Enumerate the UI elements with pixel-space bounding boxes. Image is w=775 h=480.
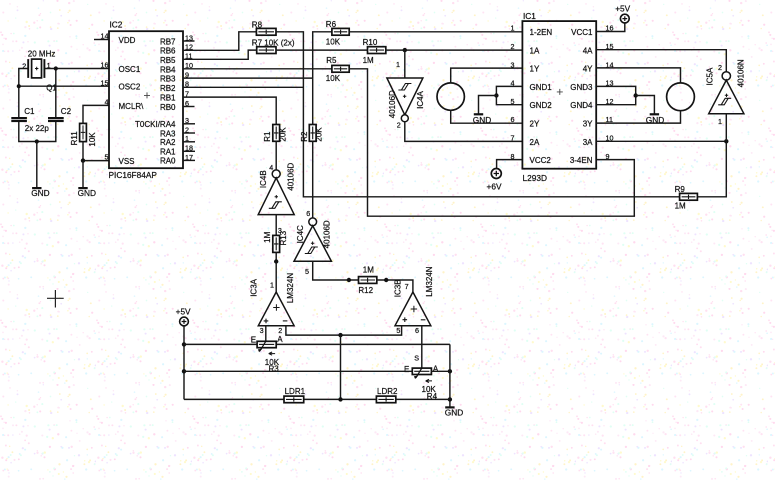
svg-text:3-4EN: 3-4EN [570, 156, 593, 165]
wire motor M2 bottom to 3Y [596, 111, 680, 123]
wire node C to LDR junction [340, 335, 342, 399]
wire rail to ground [36, 142, 38, 188]
junction LDR2/ground riser [448, 397, 452, 401]
svg-text:11: 11 [185, 52, 192, 61]
svg-text:GND: GND [473, 115, 491, 125]
wire RB3 riser up to R6 [313, 32, 332, 78]
wire OSC1 net: crystal pin1 to IC2 OSC1 [44, 68, 109, 70]
ground GND under L293D right [646, 114, 664, 125]
svg-text:R12: R12 [358, 286, 373, 295]
power +5V symbol top right [620, 14, 629, 23]
svg-text:6: 6 [415, 326, 419, 335]
svg-text:L293D: L293D [523, 173, 547, 183]
wire R2 to IC4C output bubble [312, 141, 314, 218]
wire OSC2 net: node to IC2 OSC2 [19, 85, 109, 87]
wire VSS net to IC2 pin 5 [83, 160, 109, 162]
wire RB4 to R5 [183, 68, 332, 70]
svg-text:7: 7 [511, 134, 515, 143]
svg-text:2: 2 [22, 61, 26, 70]
wire RB2 to R8 riser [183, 86, 303, 88]
photoresistor LDR1 [284, 396, 304, 403]
inverter IC4A [387, 78, 423, 122]
junction rail/R3 row [182, 342, 186, 346]
wire IC5A input lead [725, 114, 727, 142]
wire R4 row A side [431, 370, 450, 372]
ground GND under R11 [78, 188, 96, 198]
motor M2 right [667, 83, 695, 111]
IC IC1 L293D body [522, 21, 596, 169]
resistor R8 [256, 28, 276, 35]
wire IC4C input to R12 row [313, 261, 359, 280]
svg-text:14: 14 [101, 32, 109, 41]
wire R7 to R10 [276, 49, 368, 51]
svg-text:1A: 1A [530, 46, 540, 55]
svg-text:12: 12 [185, 43, 193, 52]
svg-text:5: 5 [305, 267, 309, 276]
wire GND3 GND4 bracket [596, 86, 636, 104]
junction R12 left node [347, 278, 351, 282]
svg-text:IC1: IC1 [523, 11, 536, 21]
svg-text:5: 5 [105, 153, 109, 162]
svg-text:10: 10 [185, 61, 193, 70]
resistor R6 [332, 28, 349, 35]
inverter IC5A [709, 72, 744, 114]
wire GND1 GND2 bracket [496, 86, 522, 104]
wire L293D 1Y to motor M1 top [451, 68, 523, 83]
ground GND bottom right [445, 407, 463, 417]
resistor R5 [332, 65, 349, 72]
junction VSS/R11/ground [81, 158, 85, 162]
wire LDR row [184, 398, 450, 400]
wire C2 riser from OSC1 net [55, 69, 57, 118]
junction node OSC2/C1 [17, 84, 21, 88]
svg-text:RB1: RB1 [160, 93, 176, 102]
svg-text:9: 9 [185, 71, 189, 80]
wire VSS node to ground [82, 161, 84, 188]
svg-text:18: 18 [185, 144, 193, 153]
svg-text:GND1: GND1 [530, 83, 553, 92]
junction R4A/ground riser [448, 369, 452, 373]
svg-text:15: 15 [101, 78, 109, 87]
wire bracket to ground [479, 96, 497, 115]
wire R5 right lead riser and run to L293D pin 9 [349, 69, 634, 216]
svg-text:VCC1: VCC1 [571, 28, 593, 37]
svg-text:R1: R1 [263, 131, 272, 142]
svg-text:20 MHz: 20 MHz [28, 49, 56, 58]
svg-text:RA2: RA2 [160, 138, 176, 147]
svg-text:7: 7 [185, 90, 189, 99]
svg-text:3: 3 [260, 326, 264, 335]
svg-text:5: 5 [511, 97, 515, 106]
wire node B to IC3A output [275, 262, 277, 293]
svg-text:Q1: Q1 [46, 83, 57, 92]
svg-text:2A: 2A [530, 138, 540, 147]
IC IC2 PIC16F84AP body [109, 31, 183, 168]
junction LDR mid node [338, 397, 342, 401]
svg-text:20K: 20K [279, 127, 288, 142]
svg-text:R5: R5 [326, 56, 337, 65]
svg-text:2Y: 2Y [530, 120, 540, 129]
pin 14 VDD stub [94, 39, 109, 41]
op-amp IC3B [395, 292, 431, 326]
svg-text:R11: R11 [70, 131, 79, 146]
svg-text:7: 7 [405, 282, 409, 291]
wire IC5A node down to R9 [697, 141, 726, 197]
wire R11 bottom to VSS node [82, 142, 84, 161]
svg-text:10K: 10K [88, 132, 97, 147]
svg-text:8: 8 [511, 152, 515, 161]
wire 4A to IC5A output [596, 50, 726, 72]
wire IC3A pin2 to IC3B pin5 [286, 326, 402, 335]
svg-text:S: S [414, 354, 419, 363]
svg-text:LM324N: LM324N [425, 266, 434, 296]
svg-text:3: 3 [511, 60, 515, 69]
op-amp IC3A [258, 292, 294, 326]
origin cross of IC1 [557, 89, 563, 95]
svg-text:GND3: GND3 [570, 83, 593, 92]
resistor R11 [80, 123, 87, 141]
svg-text:C2: C2 [61, 107, 72, 116]
svg-text:4: 4 [105, 98, 109, 107]
svg-text:RB6: RB6 [160, 47, 176, 56]
svg-text:R3: R3 [269, 364, 280, 373]
wire R8 right lead, riser and run to R9 (net to IC5A input) [276, 32, 680, 197]
wire RB5 to R7 [183, 50, 257, 59]
svg-text:1: 1 [185, 134, 189, 143]
wire RB3 node down to R2 [312, 78, 314, 124]
pin RA4 stub (3) [183, 123, 195, 125]
svg-text:IC4A: IC4A [416, 90, 425, 108]
svg-text:1M: 1M [363, 56, 374, 65]
svg-text:2: 2 [397, 121, 401, 130]
junction R12 right node [384, 278, 388, 282]
svg-text:RA1: RA1 [160, 148, 176, 157]
svg-text:OSC1: OSC1 [119, 65, 141, 74]
svg-text:VCC2: VCC2 [530, 156, 552, 165]
inverter IC4C [294, 218, 331, 261]
svg-text:2x 22p: 2x 22p [25, 124, 50, 133]
svg-text:RB3: RB3 [160, 75, 176, 84]
svg-text:10K: 10K [326, 37, 341, 46]
svg-text:R9: R9 [675, 185, 686, 194]
wire bracket to ground right [636, 96, 655, 115]
svg-text:3A: 3A [583, 138, 593, 147]
wire IC3A pin3 to R3 wiper [265, 326, 267, 342]
svg-text:6: 6 [306, 209, 310, 218]
junction node A (R10/IC4A/1A) [403, 48, 407, 52]
svg-text:2: 2 [718, 63, 722, 72]
pin RA0 stub (17) [183, 159, 195, 161]
wire MCLR net: corner to IC2 pin 4 [83, 105, 109, 123]
wire motor M1 bottom to L293D 2Y [451, 110, 523, 123]
crystal Q1 [28, 59, 44, 78]
svg-text:RA0: RA0 [160, 157, 176, 166]
svg-text:1: 1 [511, 24, 515, 33]
svg-text:6: 6 [185, 99, 189, 108]
svg-text:LDR2: LDR2 [377, 387, 398, 396]
svg-text:IC4C: IC4C [296, 225, 305, 243]
svg-text:E: E [404, 365, 409, 374]
svg-text:20K: 20K [315, 127, 324, 142]
ground GND under L293D left [473, 114, 491, 125]
svg-text:RA3: RA3 [160, 129, 176, 138]
svg-text:1M: 1M [263, 231, 272, 242]
origin cross of IC2 [144, 92, 150, 98]
svg-text:LM324N: LM324N [286, 273, 295, 303]
junction GND1/GND2 [494, 93, 498, 97]
svg-text:GND: GND [445, 408, 463, 418]
svg-text:+5V: +5V [615, 3, 630, 13]
wire node to C1 top [18, 86, 20, 117]
ground GND under C1 C2 [31, 188, 49, 198]
svg-text:A: A [277, 335, 283, 344]
svg-text:+6V: +6V [487, 182, 502, 192]
junction IC5A input node [724, 139, 728, 143]
svg-text:RB7: RB7 [160, 37, 176, 46]
svg-text:OSC2: OSC2 [119, 83, 141, 92]
junction GND3/GND4 [634, 93, 638, 97]
svg-text:IC2: IC2 [110, 20, 123, 30]
wire IC4B input to R13 [275, 215, 277, 236]
resistor R12 [359, 277, 377, 284]
resistor R10 [368, 47, 386, 54]
svg-text:GND4: GND4 [570, 101, 593, 110]
resistor R9 [680, 193, 698, 200]
power +6V symbol [491, 169, 501, 179]
wire R6 to L293D pin 1 [349, 31, 522, 33]
wire node A to IC4A input [404, 50, 406, 78]
resistor R7 [257, 47, 276, 54]
resistor R2 [309, 125, 316, 142]
pin RB0 stub (6) [183, 106, 195, 108]
svg-text:R2: R2 [300, 131, 309, 142]
svg-text:MCLR\: MCLR\ [119, 102, 145, 111]
pin RA2 stub (1) [183, 141, 195, 143]
svg-text:RB5: RB5 [160, 56, 176, 65]
pin RB7 stub (13) [183, 40, 195, 42]
svg-text:9: 9 [606, 152, 610, 161]
svg-text:3: 3 [185, 116, 189, 125]
motor M1 left [437, 83, 464, 110]
svg-text:40106D: 40106D [323, 220, 332, 248]
inverter IC4B [258, 170, 294, 215]
junction node OSC1/C2 [54, 66, 58, 70]
svg-text:13: 13 [185, 33, 193, 42]
wire ground riser right side [449, 344, 451, 407]
svg-text:1: 1 [718, 117, 722, 126]
svg-text:2: 2 [511, 42, 515, 51]
svg-text:IC4B: IC4B [259, 170, 268, 188]
photoresistor LDR2 [376, 396, 395, 403]
wire R1 to IC4B output bubble [275, 141, 277, 170]
resistor R13 [273, 235, 280, 252]
resistor R1 [273, 125, 280, 142]
wire R10 to node A and L293D pin 2 [386, 49, 523, 51]
svg-text:IC5A: IC5A [705, 67, 714, 85]
svg-text:RB0: RB0 [160, 103, 176, 112]
wire VCC1 to +5V [596, 23, 625, 31]
power +5V rail symbol [180, 317, 189, 326]
wire IC3B pin6 to R4 wiper [421, 326, 423, 368]
svg-text:C1: C1 [24, 107, 35, 116]
svg-text:1-2EN: 1-2EN [530, 28, 553, 37]
svg-text:GND: GND [646, 115, 664, 125]
svg-text:1: 1 [396, 60, 400, 69]
svg-text:1Y: 1Y [530, 65, 540, 74]
svg-text:E: E [251, 335, 256, 344]
junction rail to ground [35, 139, 39, 143]
wire RB3 to R6/R2 node [183, 77, 313, 79]
svg-text:4: 4 [511, 79, 515, 88]
svg-text:2: 2 [185, 125, 189, 134]
svg-text:RB4: RB4 [160, 65, 176, 74]
svg-text:40106D: 40106D [287, 162, 296, 190]
svg-text:4Y: 4Y [583, 65, 593, 74]
pin RA1 stub (18) [183, 150, 195, 152]
wire RB6 to R8 [183, 32, 256, 51]
svg-text:2: 2 [278, 326, 282, 335]
svg-text:A: A [433, 365, 439, 374]
svg-text:17: 17 [185, 153, 193, 162]
capacitor C1 [11, 118, 27, 121]
svg-text:4: 4 [269, 163, 273, 172]
capacitor C2 [48, 118, 64, 121]
wire crystal pin2 lead and riser to OSC2 node [19, 69, 28, 87]
wire R4 row E side [184, 370, 412, 372]
svg-text:5: 5 [396, 326, 400, 335]
wire R12 to IC3B output [377, 280, 413, 292]
svg-text:GND: GND [78, 188, 96, 198]
svg-text:GND: GND [31, 188, 49, 198]
svg-text:T0CKI/RA4: T0CKI/RA4 [135, 120, 176, 129]
svg-text:10K: 10K [326, 74, 341, 83]
svg-text:GND2: GND2 [530, 101, 553, 110]
svg-text:6: 6 [511, 115, 515, 124]
trimmer R4 [412, 368, 432, 382]
wire 4Y to motor M2 top [596, 68, 680, 83]
wire C1 bottom to rail [19, 122, 56, 142]
svg-text:VSS: VSS [119, 157, 135, 166]
wire +5V rail down to LDR row [183, 326, 185, 400]
pin RA3 stub (2) [183, 132, 195, 134]
svg-text:R10: R10 [363, 38, 378, 47]
wire R13 to node B [275, 252, 277, 261]
wire 3A to IC5A input node [596, 140, 726, 142]
junction node B (R13/IC3A output) [274, 259, 278, 263]
svg-text:+5V: +5V [176, 307, 191, 317]
svg-text:R7 10K (2x): R7 10K (2x) [252, 38, 295, 47]
svg-text:IC3A: IC3A [250, 278, 259, 296]
svg-text:1M: 1M [363, 266, 374, 275]
svg-text:LDR1: LDR1 [285, 387, 306, 396]
svg-text:40106N: 40106N [737, 59, 746, 87]
svg-text:RB2: RB2 [160, 84, 176, 93]
junction rail/R4 row [182, 369, 186, 373]
svg-text:1M: 1M [675, 202, 686, 211]
wire VCC2 to +6V [497, 160, 523, 169]
svg-text:8: 8 [185, 80, 189, 89]
svg-text:PIC16F84AP: PIC16F84AP [109, 170, 158, 180]
svg-text:R6: R6 [326, 20, 337, 29]
wire RB1 to R1 [183, 97, 276, 124]
trimmer R3 [257, 341, 276, 355]
svg-text:40106D: 40106D [388, 90, 397, 118]
svg-text:1: 1 [270, 280, 274, 289]
svg-text:IC3B: IC3B [393, 279, 402, 297]
svg-text:3Y: 3Y [583, 120, 593, 129]
svg-text:4A: 4A [583, 46, 593, 55]
junction node C (inputs to LDR divider) [338, 333, 342, 337]
wire R3 row [184, 343, 450, 345]
svg-text:1: 1 [47, 61, 51, 70]
origin cross mark [47, 290, 64, 308]
svg-text:R8: R8 [252, 20, 263, 29]
wire IC4A output to L293D pin 7 [405, 122, 523, 142]
svg-text:16: 16 [101, 61, 109, 70]
svg-text:VDD: VDD [119, 36, 136, 45]
svg-text:R13: R13 [279, 230, 288, 245]
